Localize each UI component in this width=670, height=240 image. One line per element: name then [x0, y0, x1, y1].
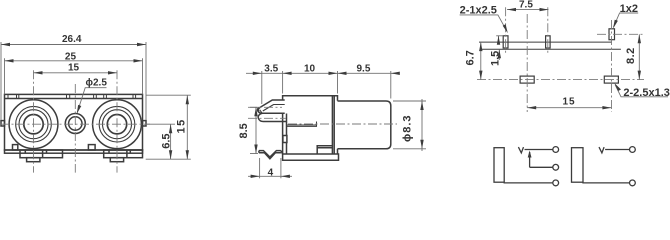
footprint dimensions	[460, 10, 668, 108]
front view 6.5 top ref	[146, 123, 175, 125]
side view centerlines	[248, 107, 397, 124]
leader 1x2	[614, 13, 639, 27]
leader phi2.5	[77, 88, 106, 113]
front view right side tab	[143, 121, 147, 126]
jack symbol 1 terminal 3	[553, 180, 559, 186]
jack symbol 1 switch arrowhead	[528, 151, 532, 158]
side view dimensions	[246, 71, 426, 178]
centerline bottom pads horizontal	[477, 79, 644, 81]
jack symbol 1 terminal 2	[553, 164, 559, 170]
dim 7.5 line	[507, 9, 549, 11]
dim 8.2 line	[638, 34, 640, 79]
pad P1 (1x2.5)	[503, 36, 508, 48]
dim phi8.3 top ref	[393, 100, 426, 102]
dim phi8.3 bottom ref	[393, 148, 426, 150]
dim 8.5 top ref tick	[250, 106, 260, 108]
hook contact centerline	[248, 106, 282, 108]
dim 3.5 outside arrows	[253, 72, 262, 75]
U contact centerline	[248, 117, 286, 119]
dim 4 outside arrows	[251, 175, 260, 178]
jack symbol 1 top wire	[525, 149, 553, 151]
svg-text:8.5: 8.5	[238, 123, 250, 138]
side body edge notch	[283, 136, 287, 143]
15 height arrows	[186, 95, 189, 104]
side view body outline	[283, 96, 338, 154]
jack symbol 2 top wire	[605, 149, 629, 151]
leader 2-1x2.5	[460, 15, 507, 31]
footprint centerlines	[477, 7, 644, 112]
side view rear foot step	[317, 146, 332, 154]
front view 15 height dim line	[186, 95, 188, 159]
side view barrel	[338, 101, 391, 149]
dim 10 arrows	[329, 72, 338, 75]
dim 25 line	[5, 60, 143, 62]
dim 26.4 line	[1, 44, 146, 46]
jack symbol 1 terminal 1	[553, 147, 559, 153]
dim 15 line	[34, 72, 118, 74]
centerline module mid vertical	[526, 14, 528, 112]
svg-text:25: 25	[65, 52, 77, 63]
svg-text:6.5: 6.5	[161, 134, 173, 149]
front view left side tab	[1, 121, 5, 126]
6.5 arrows	[169, 124, 172, 133]
svg-text:10: 10	[304, 63, 316, 74]
front view pedestal inner marks	[25, 150, 130, 158]
footprint line A	[479, 41, 612, 43]
front view bottom ref	[146, 158, 191, 160]
side view bottom plate	[283, 154, 339, 160]
svg-text:7.5: 7.5	[519, 0, 533, 10]
svg-text:2-2.5x1.3: 2-2.5x1.3	[623, 87, 669, 99]
svg-text:15: 15	[68, 62, 80, 73]
center tongue pin	[287, 122, 317, 127]
dim phi8.3 line	[421, 99, 423, 151]
front view dimensions	[1, 42, 191, 159]
front view 15 height top ref	[146, 94, 191, 96]
front view right pedestal	[104, 150, 143, 158]
dim 25 extension lines	[4, 58, 6, 94]
barrel axis centerline	[288, 123, 397, 125]
front view body inner top line	[5, 98, 143, 100]
jack symbol 2 bottom wire	[583, 181, 629, 184]
svg-text:9.5: 9.5	[357, 63, 371, 74]
front view left pedestal	[20, 150, 63, 158]
pad P3 (1x2)	[609, 29, 615, 40]
side top dim line	[246, 72, 399, 74]
side view flange double line	[332, 96, 334, 154]
dim phi8.3 arrows	[420, 101, 423, 110]
dim 1.5 arrow tails	[498, 36, 500, 44]
centerline pad1 vertical	[505, 7, 507, 54]
svg-text:26.4: 26.4	[62, 34, 82, 45]
J contact (second pin)	[258, 113, 286, 121]
dim 1.5 arrow	[497, 36, 500, 45]
leader arrow 2-2.5x1.3	[615, 83, 622, 91]
jack symbol 2 tip contact V	[599, 147, 604, 153]
leader arrow 2-1x2.5	[503, 24, 508, 33]
bottom pad R (2.5x1.3)	[604, 76, 618, 83]
dim 4 line	[248, 175, 292, 177]
svg-text:6.7: 6.7	[464, 50, 476, 65]
front view bottom center notch	[88, 145, 95, 150]
jack symbol 1 middle wire	[530, 166, 553, 168]
svg-text:8.2: 8.2	[625, 47, 637, 64]
hook contact (top pin)	[258, 100, 285, 113]
centerline pad2 vertical	[547, 7, 549, 54]
bottom pad L (2.5x1.3)	[520, 76, 534, 83]
vertical centerline left socket	[33, 70, 35, 172]
front view top edge ticks	[8, 94, 136, 98]
jack symbol 2 terminal 2	[630, 180, 636, 186]
dim 1.5 pad-top ref tick	[496, 35, 503, 37]
left RCA socket rings	[9, 100, 58, 149]
dim 25 arrows	[5, 59, 14, 62]
dim 8.5 line	[255, 107, 257, 153]
dim 7.5 arrows	[507, 8, 516, 11]
right RCA socket rings	[93, 100, 142, 149]
front view 6.5 dim line	[170, 124, 172, 159]
dim 26.4 arrows	[1, 43, 10, 46]
svg-text:1.5: 1.5	[490, 51, 502, 66]
solder lug with V notch	[259, 151, 283, 159]
jack symbol 1 body	[494, 148, 504, 183]
side view body left wall	[283, 113, 287, 154]
front view bottom left notch	[13, 145, 18, 150]
center hole phi2.5	[65, 114, 85, 134]
horizontal centerline through sockets	[0, 123, 150, 125]
dim 15 line	[527, 107, 611, 109]
svg-text:15: 15	[176, 118, 188, 133]
dim 8.5 arrows	[254, 107, 257, 116]
svg-text:2-1x2.5: 2-1x2.5	[460, 5, 497, 17]
svg-text:1x2: 1x2	[620, 3, 638, 15]
leader arrow 1x2	[613, 20, 618, 29]
svg-text:ϕ8.3: ϕ8.3	[402, 114, 414, 142]
dim 26.4 extension lines	[0, 42, 2, 120]
svg-text:ϕ2.5: ϕ2.5	[86, 77, 108, 88]
footprint line B	[480, 48, 621, 50]
front view left foot	[27, 158, 40, 162]
dim 15 arrows	[527, 106, 536, 109]
vertical centerline right socket	[116, 70, 118, 172]
jack symbol 1 switch arrow line	[529, 152, 531, 167]
dim 9.5 arrows	[338, 72, 347, 75]
front view bottom band	[5, 150, 143, 153]
centerline pad3 / bottom pad R vertical	[611, 20, 613, 112]
svg-text:4: 4	[268, 168, 274, 179]
dim 6.7 arrows	[479, 42, 482, 51]
vertical centerline center hole	[74, 84, 76, 173]
leader 2-2.5x1.3	[615, 85, 668, 97]
jack symbol 1 tip contact V	[518, 147, 523, 153]
dim 6.7 line	[480, 42, 482, 80]
front view centerlines	[0, 70, 150, 172]
jack symbol 2 terminal 1	[630, 147, 636, 153]
dim 8.5 bottom ref	[250, 153, 258, 155]
svg-text:3.5: 3.5	[264, 64, 278, 75]
jack symbol 2 body	[572, 148, 584, 183]
side dims extension lines	[261, 71, 263, 104]
dim 8.2 arrows	[638, 34, 641, 43]
dim 4 ext lines	[259, 158, 261, 178]
jack symbol 1 bottom wire	[504, 181, 552, 184]
dim 15 arrows	[34, 71, 43, 74]
front view right foot	[110, 158, 123, 162]
pad P2 (1x2.5)	[546, 36, 551, 48]
front view body outline	[5, 94, 143, 150]
centerline pad3 horizontal to 8.2	[597, 33, 644, 35]
svg-text:15: 15	[563, 96, 576, 107]
